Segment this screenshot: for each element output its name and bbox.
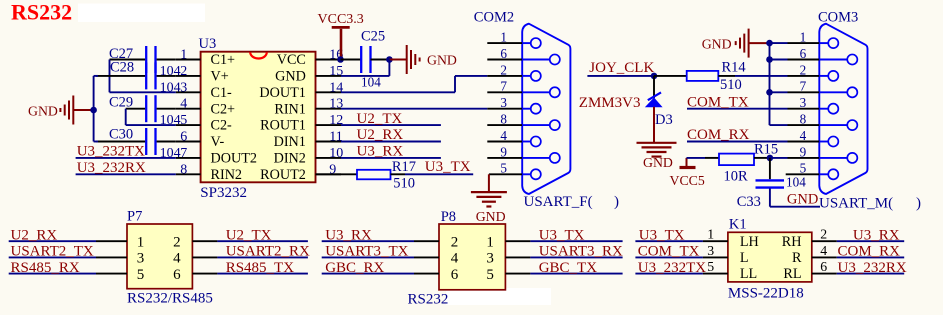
svg-text:U3_RX: U3_RX <box>357 144 404 160</box>
wire junction to R14 <box>654 75 687 77</box>
svg-text:U3_TX: U3_TX <box>425 159 471 175</box>
COM3 pin 9 stub <box>788 157 820 159</box>
capacitor C33 <box>756 179 785 181</box>
wire ground to bus COM3 <box>750 42 770 44</box>
wire zener anode to ground <box>653 107 655 142</box>
svg-text:U3_TX: U3_TX <box>639 227 685 243</box>
svg-text:510: 510 <box>720 77 742 93</box>
svg-text:10R: 10R <box>724 169 749 185</box>
svg-text:DOUT1: DOUT1 <box>259 85 306 101</box>
svg-text:1: 1 <box>180 48 187 63</box>
K1 pin 1 wire left <box>635 240 703 242</box>
wire row4 jog to C29 <box>126 108 145 110</box>
svg-text:4: 4 <box>451 251 459 267</box>
COM3 pin 3 circle <box>828 104 838 114</box>
svg-text:104: 104 <box>786 174 806 189</box>
P7 pin 2 wire right <box>192 240 217 242</box>
P7 pin 4 wire right <box>192 256 217 258</box>
COM3 pin 7 circle <box>847 87 857 97</box>
U3 pin 1 stub <box>176 59 201 61</box>
U3 pin 8 stub <box>176 173 201 175</box>
svg-text:R: R <box>792 250 802 266</box>
capacitor C33 stem top <box>769 158 771 179</box>
COM3 pin 1 stub <box>788 42 820 44</box>
svg-text:USART_F(: USART_F( <box>524 194 593 210</box>
U3 pin 2 stub <box>176 75 201 77</box>
U3 pin 9 stub <box>316 173 342 175</box>
net U3_232RX wire <box>76 173 176 175</box>
COM3 pin 1 lead <box>819 42 828 44</box>
svg-text:VCC5: VCC5 <box>670 173 705 188</box>
COM2 pin 4 stub <box>487 141 522 143</box>
capacitor C25 <box>360 46 362 73</box>
COM3 pin 5 lead <box>819 173 828 175</box>
svg-text:P7: P7 <box>127 208 142 224</box>
net U3_RX wire <box>341 157 441 159</box>
ground stem COM2 pin5 <box>488 174 490 191</box>
svg-text:GND: GND <box>28 103 58 118</box>
svg-text:5: 5 <box>137 267 145 283</box>
net U2_RX wire <box>341 141 441 143</box>
svg-text:V-: V- <box>211 134 225 150</box>
svg-text:D3: D3 <box>655 112 673 128</box>
resistor R14 <box>687 71 719 81</box>
net COM_TX wire <box>687 108 788 110</box>
svg-text:ROUT1: ROUT1 <box>260 118 306 134</box>
svg-text:K1: K1 <box>729 217 747 233</box>
svg-text:U3_232RX: U3_232RX <box>838 260 907 276</box>
svg-text:U2_TX: U2_TX <box>226 227 272 243</box>
net U3_232TX wire <box>76 157 176 159</box>
COM2 pin 2 circle <box>531 71 541 81</box>
ground ladder COM2 <box>471 191 507 193</box>
P8 pin 6 wire left <box>322 273 414 275</box>
U3 pin 14 stub <box>316 91 342 93</box>
svg-text:RIN2: RIN2 <box>211 167 243 183</box>
svg-text:GND: GND <box>275 69 306 85</box>
svg-text:RS485_TX: RS485_TX <box>226 260 295 276</box>
COM2 pin 8 stub <box>487 124 522 126</box>
U3 pin 7 stub <box>176 157 201 159</box>
svg-text:C1+: C1+ <box>211 52 236 68</box>
ground symbol COM3 <box>735 41 737 45</box>
COM3 pin 5 stub <box>786 173 820 175</box>
red arc marker on U3 <box>250 52 267 58</box>
COM3 pin 9 circle <box>847 153 857 163</box>
COM2 pin 7 circle <box>550 87 560 97</box>
P7 pin 5 wire left <box>9 273 96 275</box>
svg-text:GND: GND <box>787 192 818 208</box>
svg-text:DOUT2: DOUT2 <box>211 151 258 167</box>
COM3 pin 9 lead <box>819 157 847 159</box>
svg-text:6: 6 <box>180 130 187 145</box>
svg-text:P8: P8 <box>441 209 456 225</box>
svg-text:U3_RX: U3_RX <box>325 227 372 243</box>
svg-text:GBC_TX: GBC_TX <box>539 260 598 276</box>
capacitor C30 <box>145 128 147 155</box>
P8 pin 5 wire right <box>505 273 530 275</box>
svg-text:C2+: C2+ <box>211 101 236 117</box>
svg-text:5: 5 <box>180 113 187 128</box>
svg-text:1: 1 <box>137 235 145 251</box>
wire C29 right to pin4 <box>157 108 176 110</box>
COM2 pin 5 stub <box>489 173 522 175</box>
COM3 pin 7 stub <box>788 91 820 93</box>
COM3 pin 8 circle <box>847 120 857 130</box>
wire row5 to pin5 <box>126 124 176 126</box>
wire jog DOUT1 up <box>454 76 456 92</box>
wire C25 to GND junction <box>371 59 390 61</box>
svg-text:3: 3 <box>137 251 145 267</box>
svg-text:8: 8 <box>180 162 187 177</box>
svg-text:): ) <box>614 194 619 210</box>
svg-text:C25: C25 <box>361 29 385 45</box>
wire C33 to GND net <box>769 189 771 207</box>
net U3_TX wire <box>405 173 473 175</box>
svg-text:4: 4 <box>173 251 181 267</box>
svg-text:2: 2 <box>820 227 827 242</box>
COM3 pin 5 circle <box>828 169 838 179</box>
wire bus to COM3 pin 7 <box>770 91 788 93</box>
P8 pin 1 wire right <box>505 240 530 242</box>
wire jog to COM2 pin2 <box>455 75 487 77</box>
resistor R15 <box>719 154 754 166</box>
U3 pin 5 stub <box>176 124 201 126</box>
COM2 pin 3 circle <box>531 104 541 114</box>
K1 pin 2 wire right <box>812 240 837 242</box>
svg-text:RS232: RS232 <box>11 0 72 25</box>
svg-text:U3: U3 <box>199 36 217 52</box>
junction GND bus row 1 <box>766 40 773 47</box>
wire C27 row1 left <box>110 59 146 61</box>
wire junction to ground <box>389 59 406 61</box>
COM2 pin 1 circle <box>531 38 541 48</box>
COM3 pin 2 circle <box>828 71 838 81</box>
wire R14 to GND bus <box>718 75 735 77</box>
white patch top-left <box>78 4 205 23</box>
svg-text:4: 4 <box>820 243 827 258</box>
COM2 pin 5 lead <box>522 173 531 175</box>
wire pin15 to vertical <box>341 75 389 77</box>
U3 pin 11 stub <box>316 141 342 143</box>
junction R15 C33 <box>767 155 774 162</box>
capacitor C29 <box>145 95 147 122</box>
svg-text:USART2_RX: USART2_RX <box>226 244 310 260</box>
wire jog pin4 to pin5 <box>125 109 127 125</box>
COM2 pin 6 lead <box>522 59 550 61</box>
connector COM2 outline <box>522 24 570 194</box>
svg-text:R15: R15 <box>754 141 778 157</box>
net COM_RX wire <box>687 141 788 143</box>
zener D3 symbol <box>646 98 662 107</box>
svg-text:RL: RL <box>783 266 801 282</box>
COM2 pin 6 circle <box>550 54 560 64</box>
svg-text:1: 1 <box>486 235 494 251</box>
GND bus vertical COM3 <box>769 43 771 125</box>
svg-text:V+: V+ <box>211 69 229 85</box>
wire GND to bus <box>74 109 94 111</box>
svg-text:COM2: COM2 <box>474 9 514 25</box>
wire row3 to pin3 <box>110 91 176 93</box>
svg-text:GND: GND <box>702 36 732 51</box>
connector P8 body <box>439 224 505 290</box>
U3 pin 12 stub <box>316 124 342 126</box>
svg-text:3: 3 <box>180 80 187 95</box>
P7 pin 3 wire left <box>9 256 96 258</box>
U3 pin 16 stub <box>316 59 342 61</box>
connector P7 body <box>127 224 192 289</box>
P8 pin 3 wire right <box>505 256 530 258</box>
svg-text:ROUT2: ROUT2 <box>260 167 306 183</box>
svg-text:2: 2 <box>173 235 181 251</box>
svg-text:3: 3 <box>486 251 494 267</box>
U3 pin 15 stub <box>316 75 342 77</box>
P8 pin 4 wire left <box>322 256 414 258</box>
svg-text:U3_RX: U3_RX <box>853 227 900 243</box>
svg-text:GBC_RX: GBC_RX <box>325 260 384 276</box>
COM2 pin 7 lead <box>522 91 550 93</box>
svg-text:5: 5 <box>486 267 494 283</box>
svg-text:6: 6 <box>451 267 459 283</box>
wire C27 right to pin1 <box>157 59 176 61</box>
wire bus to COM3 pin 6 <box>770 59 788 61</box>
svg-text:RH: RH <box>782 234 802 250</box>
COM2 pin 3 lead <box>522 108 531 110</box>
U3 pin 13 stub <box>316 108 342 110</box>
svg-text:4: 4 <box>180 97 187 112</box>
wire bus to COM3 pin 2 <box>770 75 788 77</box>
COM2 pin 9 stub <box>487 157 522 159</box>
GND bus vertical left <box>93 76 95 142</box>
svg-text:2: 2 <box>451 235 459 251</box>
COM2 pin 9 lead <box>522 157 550 159</box>
svg-text:COM_RX: COM_RX <box>838 244 901 260</box>
relay K1 body <box>728 232 812 282</box>
svg-text:): ) <box>916 196 921 212</box>
svg-text:510: 510 <box>393 175 415 191</box>
COM3 pin 2 stub <box>788 75 820 77</box>
svg-text:COM_TX: COM_TX <box>638 244 700 260</box>
capacitor C27 <box>145 46 147 73</box>
K1 pin 3 wire left <box>635 256 703 258</box>
svg-text:C33: C33 <box>737 194 761 210</box>
P8 pin 2 wire left <box>322 240 414 242</box>
svg-text:7: 7 <box>180 146 187 161</box>
wire VCC5 to R15 <box>687 157 706 159</box>
svg-text:RS232/RS485: RS232/RS485 <box>127 291 213 307</box>
K1 pin 6 wire right <box>812 273 837 275</box>
svg-text:U3_TX: U3_TX <box>539 227 585 243</box>
COM2 pin 9 circle <box>550 153 560 163</box>
COM2 pin 4 circle <box>531 136 541 146</box>
COM3 pin 2 lead <box>819 75 828 77</box>
svg-text:SP3232: SP3232 <box>200 185 247 201</box>
COM3 pin 6 stub <box>788 59 820 61</box>
svg-text:LH: LH <box>740 234 759 250</box>
U3 pin 4 stub <box>176 108 201 110</box>
K1 pin 5 wire left <box>635 273 703 275</box>
svg-text:USART_M(: USART_M( <box>819 196 893 212</box>
svg-text:MSS-22D18: MSS-22D18 <box>728 286 804 302</box>
junction GND top <box>386 56 393 63</box>
junction JOY_CLK <box>651 73 658 80</box>
net JOY_CLK wire <box>587 75 654 77</box>
svg-text:R14: R14 <box>722 59 747 75</box>
COM2 pin 8 circle <box>550 120 560 130</box>
COM2 pin 7 stub <box>487 91 522 93</box>
svg-text:GND: GND <box>427 52 457 67</box>
svg-text:USART3_RX: USART3_RX <box>539 244 623 260</box>
COM3 pin 8 lead <box>819 124 847 126</box>
junction GND bus <box>90 107 97 114</box>
COM2 pin 4 lead <box>522 141 531 143</box>
svg-text:3: 3 <box>707 243 714 258</box>
svg-text:11: 11 <box>329 130 342 145</box>
P7 pin 1 wire left <box>9 240 96 242</box>
capacitor C28 <box>145 62 147 89</box>
svg-text:VCC3.3: VCC3.3 <box>318 12 364 27</box>
svg-text:1: 1 <box>707 227 714 242</box>
svg-text:C1-: C1- <box>211 85 233 101</box>
wire C28 right to pin2 <box>157 75 176 77</box>
COM2 pin 2 stub <box>487 75 522 77</box>
COM3 pin 8 stub <box>788 124 820 126</box>
svg-text:U2_RX: U2_RX <box>357 127 404 143</box>
svg-text:C30: C30 <box>109 127 133 143</box>
wire row2 GND bus to C28 <box>96 75 145 77</box>
junction GND bus row 6 <box>766 56 773 63</box>
resistor R17 <box>357 170 391 180</box>
svg-text:U3_232TX: U3_232TX <box>638 260 706 276</box>
power VCC3.3 symbol <box>332 26 350 29</box>
svg-text:GND: GND <box>476 209 506 224</box>
U3 pin 3 stub <box>176 91 201 93</box>
COM3 pin 6 circle <box>847 54 857 64</box>
power VCC5 symbol <box>680 166 696 169</box>
svg-text:USART3_TX: USART3_TX <box>325 244 408 260</box>
svg-text:5: 5 <box>707 259 714 274</box>
COM3 pin 7 lead <box>819 91 847 93</box>
svg-text:R17: R17 <box>392 159 416 175</box>
ground symbol top <box>419 58 421 62</box>
svg-text:2: 2 <box>180 64 187 79</box>
svg-text:JOY_CLK: JOY_CLK <box>589 60 654 76</box>
svg-text:USART2_TX: USART2_TX <box>11 244 94 260</box>
COM2 pin 2 lead <box>522 75 531 77</box>
wire bus corner to COM3 pin8 <box>770 124 788 126</box>
COM3 pin 3 lead <box>819 108 828 110</box>
svg-text:L: L <box>740 250 749 266</box>
wire bus to COM3 pin 1 <box>770 42 788 44</box>
junction GND bus row 7 <box>766 89 773 96</box>
svg-text:C2-: C2- <box>211 118 233 134</box>
COM3 pin 4 lead <box>819 141 828 143</box>
wire DOUT1 to jog <box>341 91 455 93</box>
zener diode D3 cathode wire <box>653 76 655 98</box>
white patch below P8 <box>446 288 551 305</box>
COM2 pin 1 stub <box>487 42 522 44</box>
svg-text:RS485_RX: RS485_RX <box>11 260 80 276</box>
wire R17 right stub <box>391 173 406 175</box>
wire ROUT2 to R17 <box>316 173 358 175</box>
wire junction to COM3 pin9 <box>770 157 788 159</box>
IC U3 SP3232 body <box>201 52 316 183</box>
wire pin16 to junction <box>340 59 343 61</box>
svg-text:RS232: RS232 <box>408 292 449 308</box>
svg-text:COM_RX: COM_RX <box>687 127 750 143</box>
svg-text:LL: LL <box>740 266 757 282</box>
ground symbol left <box>59 108 61 112</box>
wire vertical pin15 to GND junction <box>388 60 390 76</box>
svg-text:U3_232RX: U3_232RX <box>77 160 146 176</box>
COM2 pin 1 lead <box>522 42 531 44</box>
net U2_TX wire <box>341 124 441 126</box>
wire RIN1 to COM2 pin3 <box>341 108 487 110</box>
COM2 pin 6 stub <box>487 59 522 61</box>
ground ladder zener <box>637 142 677 144</box>
COM3 pin 4 stub <box>788 141 820 143</box>
wire row6 bus to C30 <box>96 141 145 143</box>
COM3 pin 3 stub <box>788 108 820 110</box>
COM3 pin 6 lead <box>819 59 847 61</box>
COM2 pin 3 stub <box>487 108 522 110</box>
P7 pin 6 wire right <box>192 273 217 275</box>
svg-text:6: 6 <box>820 259 827 274</box>
junction VCC pin16 <box>337 56 344 63</box>
wire C30 right to pin6 <box>157 141 176 143</box>
svg-text:U2_TX: U2_TX <box>357 111 403 127</box>
svg-text:C28: C28 <box>110 59 134 75</box>
svg-text:ZMM3V3: ZMM3V3 <box>579 95 641 111</box>
wire junction to C25 <box>341 59 362 61</box>
K1 pin 4 wire right <box>812 256 837 258</box>
U3 pin 10 stub <box>316 157 342 159</box>
COM3 pin 4 circle <box>828 136 838 146</box>
U3 pin 6 stub <box>176 141 201 143</box>
COM2 pin 5 circle <box>531 169 541 179</box>
svg-text:COM3: COM3 <box>818 10 858 26</box>
svg-text:6: 6 <box>173 267 181 283</box>
wire R15 to junction <box>754 157 770 159</box>
svg-text:DIN1: DIN1 <box>274 134 306 150</box>
svg-text:DIN2: DIN2 <box>274 151 306 167</box>
svg-text:GND: GND <box>643 155 673 170</box>
COM3 pin 1 circle <box>828 38 838 48</box>
connector COM3 outline <box>819 24 867 194</box>
wire jog pin1 to pin3 <box>109 60 111 93</box>
svg-text:COM_TX: COM_TX <box>687 94 749 110</box>
COM2 pin 8 lead <box>522 124 550 126</box>
svg-text:U2_RX: U2_RX <box>11 227 58 243</box>
svg-text:RIN1: RIN1 <box>274 101 306 117</box>
svg-text:VCC: VCC <box>277 52 306 68</box>
svg-text:U3_232TX: U3_232TX <box>77 143 145 159</box>
